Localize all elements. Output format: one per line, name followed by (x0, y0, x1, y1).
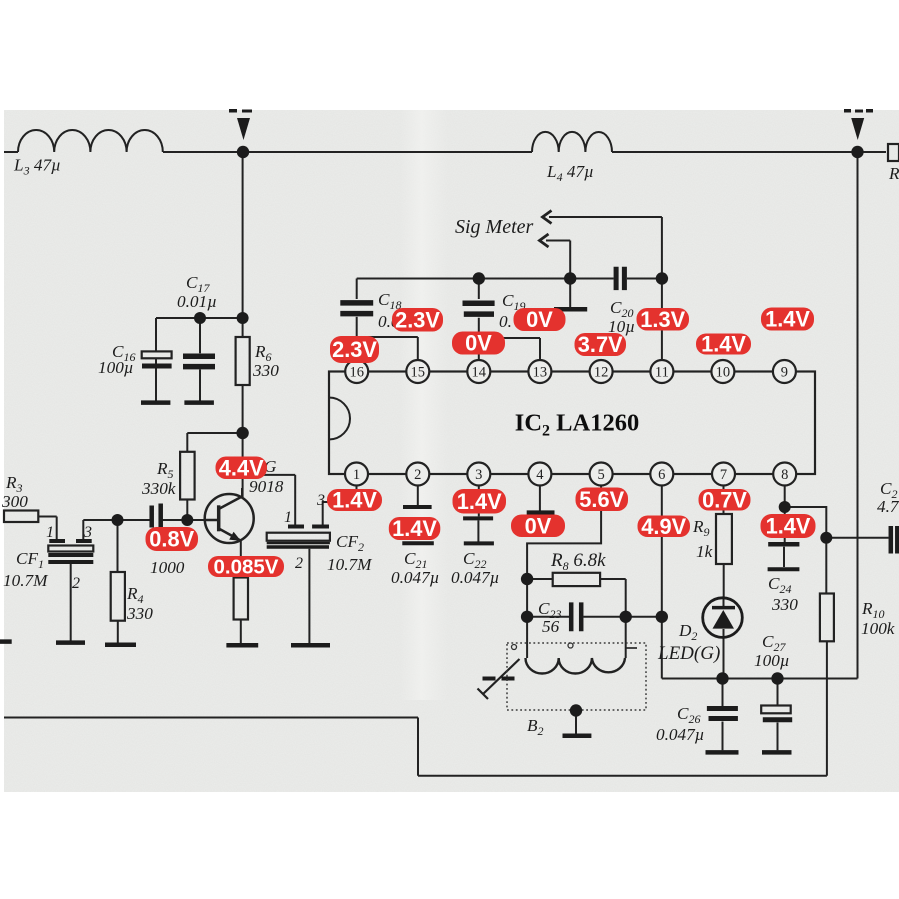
svg-text:5.6V: 5.6V (579, 487, 624, 512)
svg-text:1: 1 (284, 509, 292, 526)
svg-text:11: 11 (655, 365, 669, 381)
svg-text:0.085V: 0.085V (214, 556, 279, 579)
svg-text:4.4V: 4.4V (219, 455, 264, 480)
svg-text:2.3V: 2.3V (395, 307, 440, 332)
svg-text:12: 12 (594, 365, 609, 381)
svg-text:4: 4 (536, 467, 544, 483)
svg-text:Sig Meter: Sig Meter (455, 216, 534, 238)
svg-text:8: 8 (781, 467, 788, 483)
svg-text:1.4V: 1.4V (765, 307, 810, 332)
svg-text:100k: 100k (861, 619, 895, 638)
svg-text:2: 2 (295, 555, 303, 572)
svg-text:330: 330 (771, 595, 798, 614)
svg-text:300: 300 (1, 492, 28, 511)
svg-text:10.7M: 10.7M (327, 555, 373, 574)
svg-text:0.047µ: 0.047µ (656, 725, 705, 744)
svg-text:0V: 0V (525, 513, 552, 538)
svg-text:6: 6 (658, 467, 665, 483)
svg-text:4.9V: 4.9V (641, 514, 686, 539)
svg-text:10.7M: 10.7M (3, 571, 49, 590)
svg-text:0.01µ: 0.01µ (177, 292, 217, 311)
svg-text:0.047µ: 0.047µ (391, 568, 440, 587)
svg-text:1.3V: 1.3V (640, 307, 685, 332)
svg-text:0V: 0V (526, 307, 553, 332)
svg-text:100µ: 100µ (98, 358, 134, 377)
svg-text:3.7V: 3.7V (578, 332, 623, 357)
svg-text:14: 14 (472, 365, 487, 381)
svg-text:0.: 0. (499, 312, 512, 331)
svg-text:16: 16 (349, 365, 364, 381)
svg-text:330k: 330k (141, 479, 176, 498)
svg-text:13: 13 (533, 365, 548, 381)
svg-text:0.047µ: 0.047µ (451, 568, 500, 587)
svg-text:0.7V: 0.7V (702, 487, 747, 512)
svg-text:5: 5 (597, 467, 604, 483)
svg-text:L4 47µ: L4 47µ (546, 162, 594, 184)
svg-text:0.8V: 0.8V (149, 527, 194, 552)
svg-text:9: 9 (781, 365, 788, 381)
svg-text:1.4V: 1.4V (457, 489, 502, 514)
svg-text:1.4V: 1.4V (701, 332, 746, 357)
svg-text:2.3V: 2.3V (332, 337, 377, 362)
svg-text:R: R (888, 164, 899, 183)
svg-text:1.4V: 1.4V (766, 514, 811, 539)
svg-text:330: 330 (252, 361, 279, 380)
svg-text:1000: 1000 (150, 558, 185, 577)
svg-text:1k: 1k (696, 542, 713, 561)
svg-text:L3 47µ: L3 47µ (13, 156, 61, 178)
svg-text:56: 56 (542, 617, 560, 636)
svg-text:2: 2 (72, 575, 80, 592)
svg-text:330: 330 (126, 604, 153, 623)
svg-text:1.4V: 1.4V (392, 516, 437, 541)
svg-text:3: 3 (316, 492, 325, 509)
svg-text:3: 3 (475, 467, 482, 483)
svg-text:LED(G): LED(G) (657, 643, 720, 664)
svg-text:2: 2 (414, 467, 421, 483)
svg-text:7: 7 (720, 467, 727, 483)
svg-text:15: 15 (411, 365, 426, 381)
svg-text:0V: 0V (465, 331, 492, 356)
svg-text:R8 6.8k: R8 6.8k (550, 550, 606, 573)
svg-text:10: 10 (716, 365, 731, 381)
svg-text:IC2 LA1260: IC2 LA1260 (515, 410, 639, 440)
svg-text:1: 1 (353, 467, 360, 483)
svg-text:100µ: 100µ (754, 651, 790, 670)
svg-text:3: 3 (83, 524, 92, 541)
svg-text:1: 1 (46, 524, 54, 541)
svg-text:4.7: 4.7 (877, 497, 899, 516)
svg-text:1.4V: 1.4V (332, 488, 377, 513)
